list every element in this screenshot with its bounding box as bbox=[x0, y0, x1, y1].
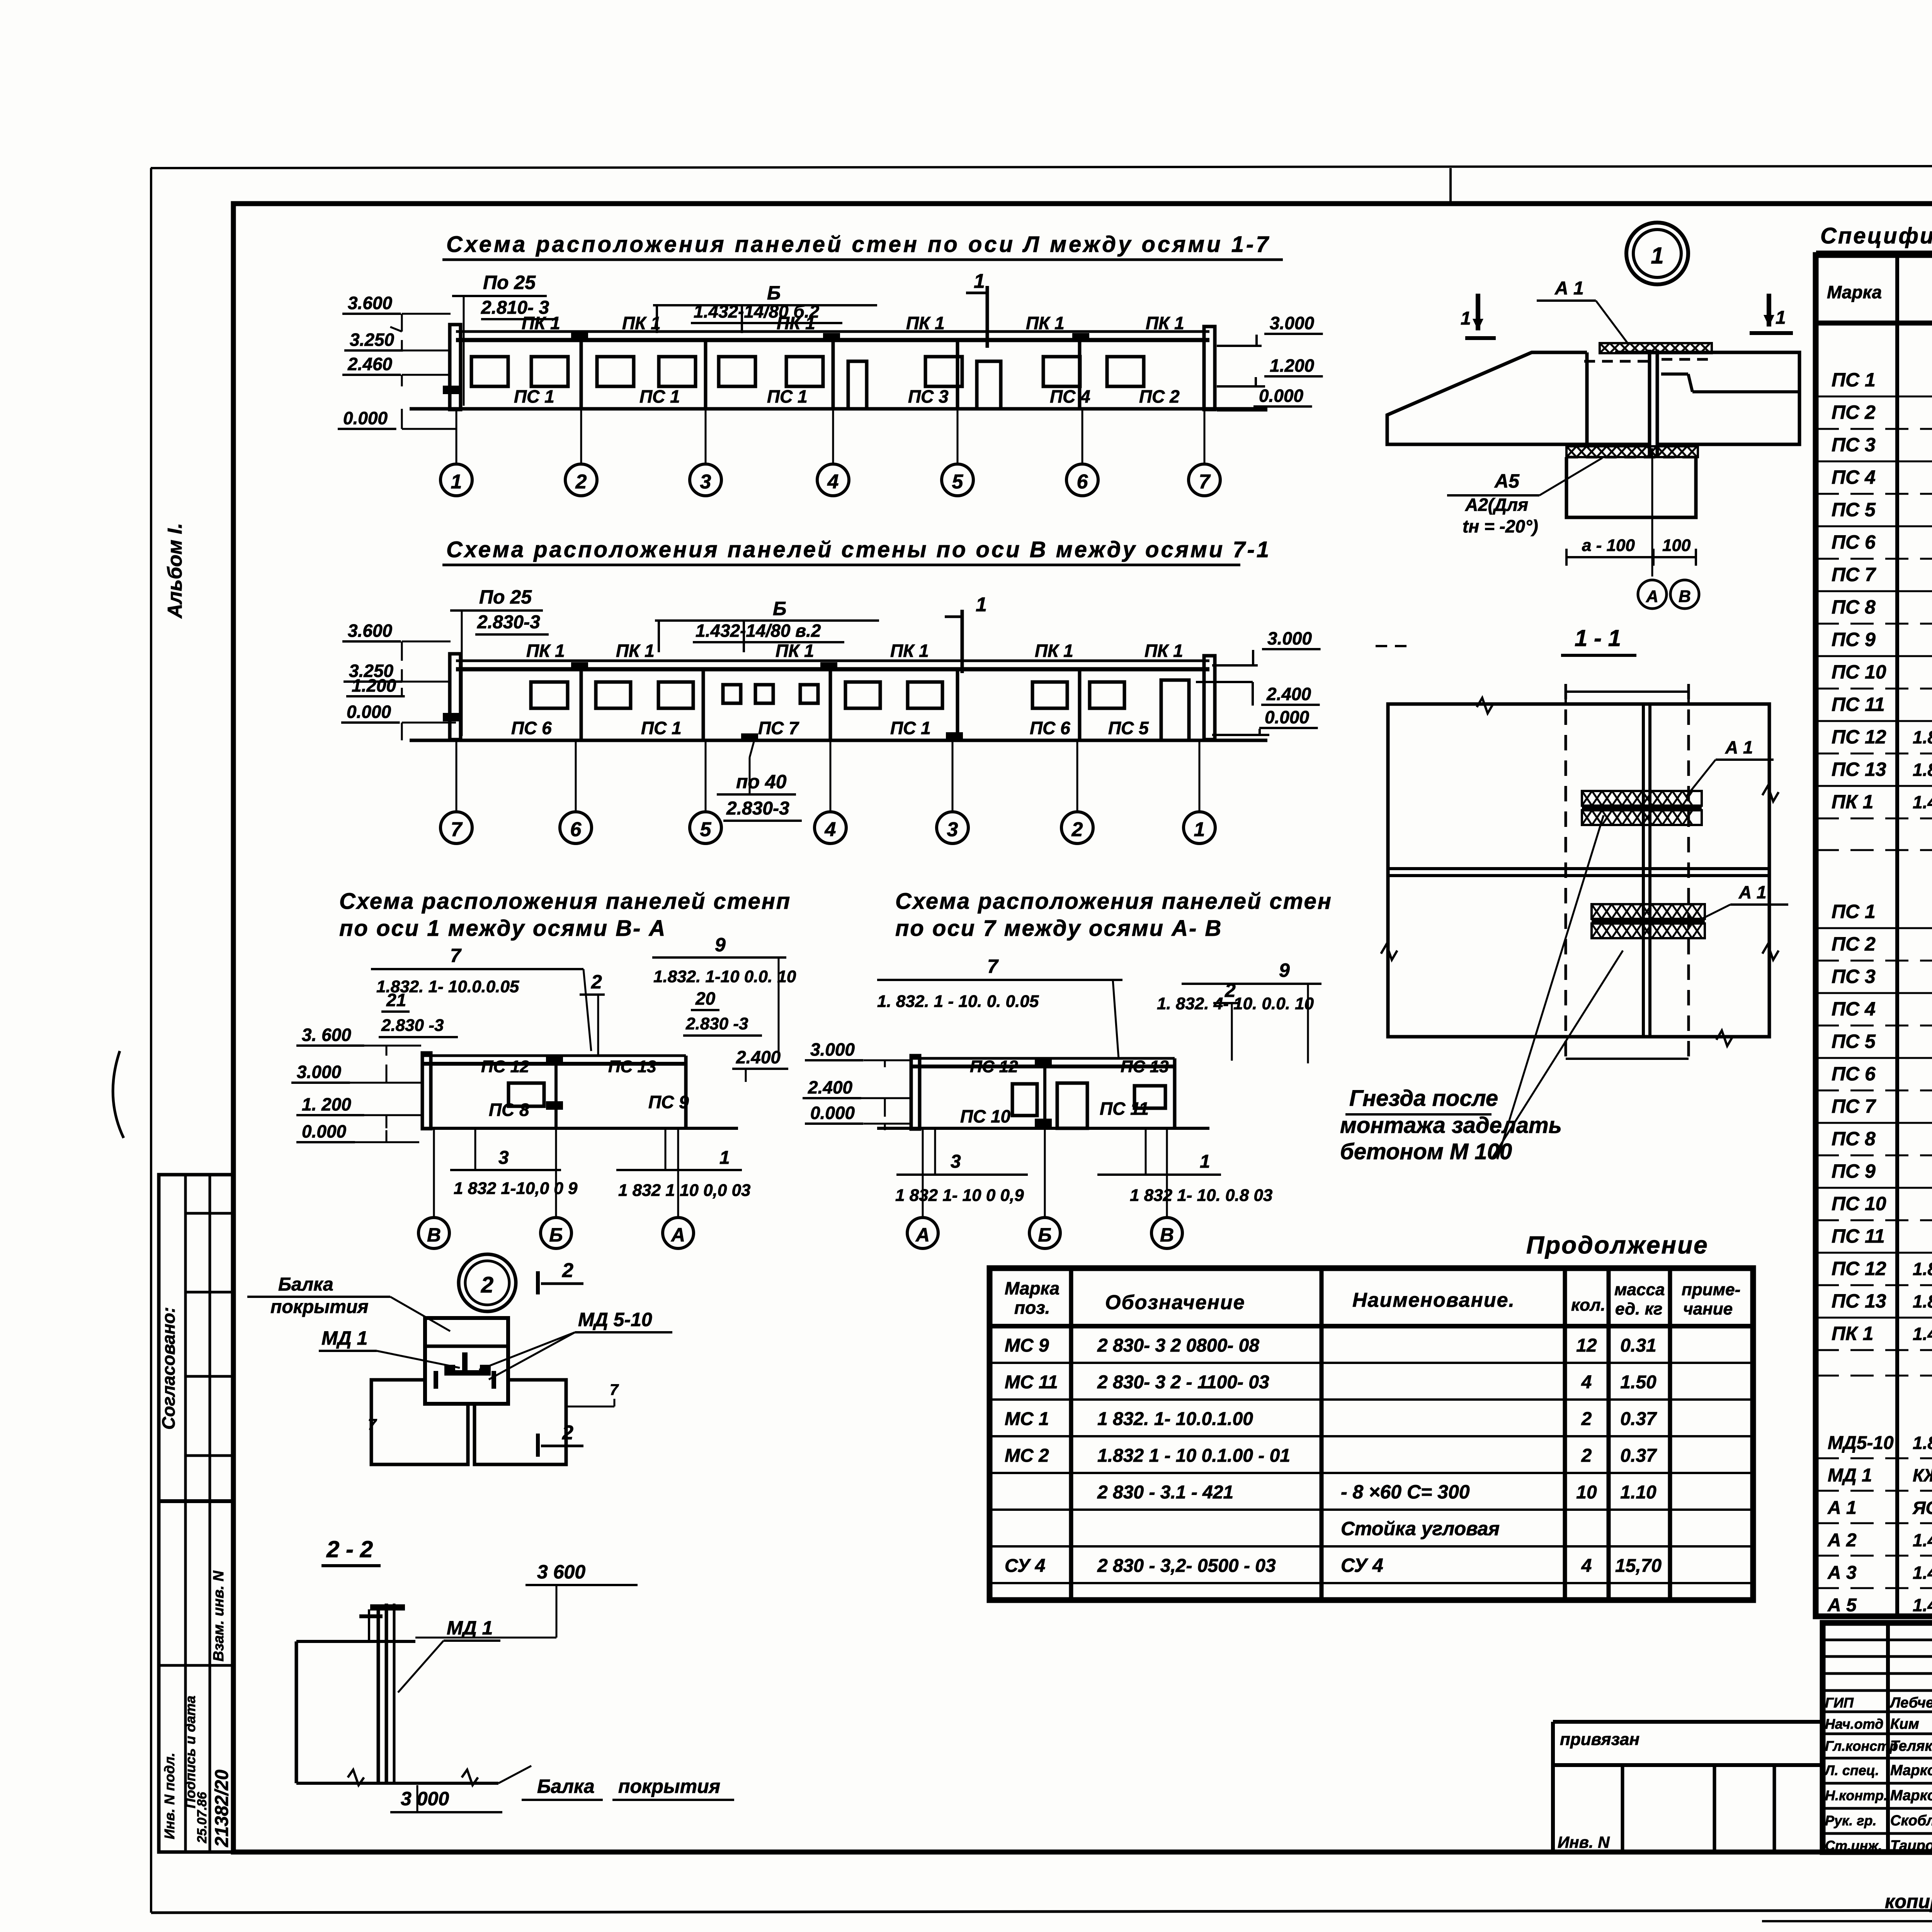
svg-text:1. 832. 1 - 10. 0. 0.05: 1. 832. 1 - 10. 0. 0.05 bbox=[877, 992, 1039, 1011]
svg-text:1: 1 bbox=[1651, 243, 1663, 269]
svg-text:1.832 1 - 10 0.1.00 - 01: 1.832 1 - 10 0.1.00 - 01 bbox=[1097, 1446, 1290, 1466]
svg-text:12: 12 bbox=[1576, 1335, 1597, 1356]
svg-text:А 1: А 1 bbox=[1738, 882, 1767, 902]
svg-text:ПС 7: ПС 7 bbox=[1832, 564, 1876, 585]
svg-text:1: 1 bbox=[1194, 818, 1205, 841]
svg-text:ПК 1: ПК 1 bbox=[526, 641, 565, 661]
svg-text:ПС 8: ПС 8 bbox=[1832, 596, 1876, 618]
svg-text:2.830-3: 2.830-3 bbox=[477, 612, 540, 633]
svg-text:10: 10 bbox=[1576, 1482, 1597, 1503]
svg-text:1.10: 1.10 bbox=[1620, 1482, 1656, 1503]
svg-text:ПС 2: ПС 2 bbox=[1139, 386, 1180, 406]
svg-text:1: 1 bbox=[1461, 308, 1471, 329]
svg-text:ПС 6: ПС 6 bbox=[511, 718, 552, 738]
svg-text:ПС 11: ПС 11 bbox=[1832, 694, 1885, 715]
svg-text:МД5-10: МД5-10 bbox=[1828, 1433, 1894, 1453]
svg-text:2.460: 2.460 bbox=[347, 354, 393, 374]
svg-text:3.600: 3.600 bbox=[348, 293, 393, 313]
svg-text:А5: А5 bbox=[1494, 470, 1520, 492]
svg-text:4: 4 bbox=[825, 818, 836, 841]
svg-text:ГИП: ГИП bbox=[1825, 1695, 1854, 1711]
svg-text:ПК 1: ПК 1 bbox=[1832, 791, 1873, 813]
svg-text:1.200: 1.200 bbox=[1270, 355, 1315, 376]
svg-text:покрытия: покрытия bbox=[270, 1297, 369, 1317]
svg-text:100: 100 bbox=[1662, 536, 1691, 555]
svg-text:ПС 1: ПС 1 bbox=[1832, 369, 1876, 391]
svg-text:Б: Б bbox=[1038, 1224, 1051, 1246]
svg-text:привязан: привязан bbox=[1560, 1730, 1639, 1749]
svg-text:ПС 10: ПС 10 bbox=[960, 1106, 1011, 1126]
svg-text:ПС 13: ПС 13 bbox=[1832, 1290, 1886, 1312]
svg-text:3 000: 3 000 bbox=[401, 1788, 449, 1810]
svg-text:ПК 1: ПК 1 bbox=[890, 641, 929, 661]
svg-text:1.50: 1.50 bbox=[1620, 1372, 1656, 1393]
svg-text:Ст.инж.: Ст.инж. bbox=[1825, 1838, 1882, 1854]
svg-text:Л. спец.: Л. спец. bbox=[1824, 1762, 1879, 1778]
svg-text:1 - 1: 1 - 1 bbox=[1575, 625, 1621, 651]
svg-text:МД 1: МД 1 bbox=[447, 1617, 493, 1639]
svg-text:ПК 1: ПК 1 bbox=[1035, 641, 1073, 661]
svg-text:0.000: 0.000 bbox=[343, 408, 388, 428]
svg-text:2.810- 3: 2.810- 3 bbox=[481, 298, 549, 318]
svg-text:Марка: Марка bbox=[1005, 1278, 1060, 1298]
svg-text:0.31: 0.31 bbox=[1620, 1335, 1656, 1356]
svg-text:25.07.86: 25.07.86 bbox=[195, 1792, 209, 1844]
svg-text:ПС 5: ПС 5 bbox=[1832, 499, 1876, 520]
svg-text:1: 1 bbox=[719, 1148, 730, 1168]
svg-text:А: А bbox=[915, 1224, 930, 1246]
svg-text:4: 4 bbox=[827, 471, 839, 493]
svg-text:приме-: приме- bbox=[1682, 1280, 1740, 1299]
svg-text:1.432-14/80 в.2: 1.432-14/80 в.2 bbox=[696, 621, 821, 641]
svg-text:3.000: 3.000 bbox=[297, 1062, 342, 1082]
svg-text:2: 2 bbox=[1581, 1446, 1592, 1466]
svg-text:В: В bbox=[1160, 1224, 1174, 1246]
svg-text:ПС 9: ПС 9 bbox=[1832, 629, 1876, 650]
svg-text:ПК 1: ПК 1 bbox=[616, 641, 655, 661]
svg-text:Спецификация к схеме распол: Спецификация к схеме расположения панеле… bbox=[1820, 223, 1932, 248]
svg-text:1: 1 bbox=[974, 270, 985, 293]
svg-text:ПК 1: ПК 1 bbox=[1145, 641, 1183, 661]
svg-text:ПС 13: ПС 13 bbox=[1121, 1057, 1169, 1076]
svg-text:7: 7 bbox=[987, 956, 999, 977]
svg-text:ПС 4: ПС 4 bbox=[1832, 466, 1876, 488]
svg-text:Взам. инв. N: Взам. инв. N bbox=[211, 1570, 227, 1662]
svg-text:4: 4 bbox=[1581, 1372, 1592, 1393]
svg-text:Таирова: Таирова bbox=[1890, 1838, 1932, 1854]
svg-text:1.832.1- 9 впп. 0.1,2: 1.832.1- 9 впп. 0.1,2 bbox=[1913, 727, 1932, 747]
svg-text:Б: Б bbox=[767, 282, 781, 304]
svg-text:Б: Б bbox=[549, 1224, 563, 1246]
svg-text:1: 1 bbox=[976, 594, 987, 616]
svg-text:ПК 1: ПК 1 bbox=[1832, 1323, 1873, 1344]
svg-text:2: 2 bbox=[575, 471, 587, 493]
svg-text:0.000: 0.000 bbox=[347, 702, 391, 722]
svg-text:2 830- 3 2 - 1100- 03: 2 830- 3 2 - 1100- 03 bbox=[1097, 1372, 1269, 1393]
svg-text:Гнезда после: Гнезда после bbox=[1349, 1086, 1498, 1111]
svg-text:2 830- 3 2 0800- 08: 2 830- 3 2 0800- 08 bbox=[1097, 1335, 1259, 1356]
svg-text:2.830 -3: 2.830 -3 bbox=[685, 1014, 748, 1033]
svg-text:a - 100: a - 100 bbox=[1582, 536, 1635, 555]
svg-text:По 25: По 25 bbox=[483, 272, 536, 293]
svg-text:21382/20: 21382/20 bbox=[212, 1769, 232, 1847]
svg-text:А: А bbox=[1646, 587, 1658, 606]
svg-text:3.600: 3.600 bbox=[348, 621, 393, 641]
svg-text:0.000: 0.000 bbox=[302, 1121, 347, 1141]
svg-text:А 1: А 1 bbox=[1827, 1498, 1857, 1518]
svg-text:Скобликов: Скобликов bbox=[1890, 1813, 1932, 1829]
svg-text:1.832 1- 9 впп 0,1, 2: 1.832 1- 9 впп 0,1, 2 bbox=[1913, 1291, 1932, 1311]
svg-text:В: В bbox=[1679, 587, 1691, 606]
svg-text:ПС 6: ПС 6 bbox=[1832, 531, 1876, 553]
svg-text:Марков: Марков bbox=[1890, 1762, 1932, 1779]
svg-text:ПС 11: ПС 11 bbox=[1100, 1099, 1149, 1119]
svg-text:А: А bbox=[670, 1224, 685, 1246]
svg-text:А 5: А 5 bbox=[1827, 1595, 1857, 1616]
svg-text:ПС 7: ПС 7 bbox=[758, 718, 799, 738]
svg-text:21: 21 bbox=[386, 990, 406, 1010]
svg-text:МД 1: МД 1 bbox=[321, 1327, 367, 1349]
svg-text:ПС 13: ПС 13 bbox=[1832, 759, 1886, 780]
svg-text:3: 3 bbox=[498, 1148, 509, 1168]
svg-text:1.432-14/80 впп. 2: 1.432-14/80 впп. 2 bbox=[1913, 1563, 1932, 1583]
svg-text:9: 9 bbox=[715, 934, 726, 956]
svg-text:по оси 7 между осями А- В: по оси 7 между осями А- В bbox=[895, 916, 1222, 941]
svg-text:ПС 1: ПС 1 bbox=[641, 718, 682, 738]
svg-text:3.000: 3.000 bbox=[1270, 313, 1315, 333]
svg-text:ПС 1: ПС 1 bbox=[1832, 901, 1876, 922]
svg-text:20: 20 bbox=[695, 988, 716, 1009]
svg-text:ПС 4: ПС 4 bbox=[1832, 998, 1876, 1020]
svg-text:В: В bbox=[427, 1224, 441, 1246]
svg-text:Ким: Ким bbox=[1890, 1716, 1919, 1732]
svg-text:3.000: 3.000 bbox=[810, 1039, 855, 1060]
svg-text:3: 3 bbox=[951, 1151, 961, 1172]
svg-text:0.000: 0.000 bbox=[810, 1103, 855, 1123]
svg-text:ПС 2: ПС 2 bbox=[1832, 933, 1876, 955]
svg-text:5: 5 bbox=[952, 471, 964, 493]
svg-text:Обозначение: Обозначение bbox=[1105, 1291, 1245, 1314]
svg-text:Инв. N: Инв. N bbox=[1558, 1833, 1610, 1851]
svg-text:Подпись и дата: Подпись и дата bbox=[182, 1696, 198, 1808]
svg-text:ПС 8: ПС 8 bbox=[489, 1100, 529, 1120]
svg-text:2.400: 2.400 bbox=[808, 1077, 853, 1097]
svg-text:2: 2 bbox=[562, 1422, 573, 1444]
svg-text:7: 7 bbox=[450, 945, 462, 966]
svg-text:2.830 -3: 2.830 -3 bbox=[381, 1016, 444, 1035]
svg-text:2: 2 bbox=[1071, 818, 1083, 841]
svg-text:1.432-14/80 впп. 2: 1.432-14/80 впп. 2 bbox=[1913, 1595, 1932, 1615]
svg-text:ПС 7: ПС 7 bbox=[1832, 1095, 1876, 1117]
svg-text:ПК 1: ПК 1 bbox=[622, 313, 661, 333]
svg-text:1: 1 bbox=[451, 471, 462, 493]
svg-text:ПС 1: ПС 1 bbox=[890, 718, 931, 738]
svg-text:2 830 - 3,2- 0500 - 03: 2 830 - 3,2- 0500 - 03 bbox=[1097, 1556, 1276, 1576]
svg-text:ПС 4: ПС 4 bbox=[1050, 386, 1090, 406]
svg-text:ПС 10: ПС 10 bbox=[1832, 661, 1886, 683]
svg-text:3.250: 3.250 bbox=[350, 330, 395, 350]
svg-text:3: 3 bbox=[700, 471, 711, 493]
svg-text:ПС 2: ПС 2 bbox=[1832, 401, 1876, 423]
svg-text:4: 4 bbox=[1581, 1556, 1592, 1576]
svg-text:Н.контр.: Н.контр. bbox=[1825, 1787, 1888, 1803]
svg-text:7: 7 bbox=[610, 1381, 619, 1398]
svg-text:1 832. 1- 10.0.1.00: 1 832. 1- 10.0.1.00 bbox=[1097, 1409, 1253, 1429]
svg-text:- 8 ×60 С= 300: - 8 ×60 С= 300 bbox=[1341, 1481, 1470, 1503]
svg-text:По 25: По 25 bbox=[479, 586, 532, 608]
svg-text:А 1: А 1 bbox=[1554, 278, 1584, 299]
svg-text:ПС 5: ПС 5 bbox=[1108, 718, 1149, 738]
svg-text:поз.: поз. bbox=[1014, 1298, 1050, 1318]
svg-text:ПС 11: ПС 11 bbox=[1832, 1225, 1885, 1247]
svg-text:15,70: 15,70 bbox=[1615, 1556, 1662, 1576]
svg-text:Балка: Балка bbox=[278, 1274, 333, 1295]
svg-text:МС 1: МС 1 bbox=[1005, 1409, 1049, 1429]
svg-text:Стойка угловая: Стойка угловая bbox=[1341, 1518, 1500, 1539]
svg-text:ПС 12: ПС 12 bbox=[970, 1057, 1018, 1076]
svg-text:Схема расположения панелей: Схема расположения панелей стены по оси … bbox=[446, 537, 1271, 562]
svg-text:2.400: 2.400 bbox=[1266, 684, 1311, 704]
svg-text:0.37: 0.37 bbox=[1620, 1446, 1657, 1466]
svg-text:1.800 - 4: 1.800 - 4 bbox=[1913, 1433, 1932, 1453]
svg-text:монтажа заделать: монтажа заделать bbox=[1340, 1113, 1562, 1138]
svg-text:Балка: Балка bbox=[537, 1776, 595, 1797]
svg-text:2 - 2: 2 - 2 bbox=[326, 1536, 373, 1562]
svg-text:МД 1: МД 1 bbox=[1828, 1465, 1872, 1486]
svg-text:6: 6 bbox=[570, 818, 582, 841]
svg-text:СУ 4: СУ 4 bbox=[1341, 1554, 1383, 1576]
svg-text:ПС 8: ПС 8 bbox=[1832, 1128, 1876, 1150]
svg-text:Марков: Марков bbox=[1890, 1787, 1932, 1804]
svg-text:КЖИ 5-00. 16.00: КЖИ 5-00. 16.00 bbox=[1913, 1465, 1932, 1485]
svg-text:Телякобский: Телякобский bbox=[1890, 1738, 1932, 1754]
svg-text:ПС 1: ПС 1 bbox=[514, 386, 554, 406]
svg-text:tн = -20°): tн = -20°) bbox=[1463, 516, 1538, 536]
svg-text:ПС 5: ПС 5 bbox=[1832, 1031, 1876, 1052]
svg-text:Наименование.: Наименование. bbox=[1352, 1289, 1515, 1311]
svg-text:кол.: кол. bbox=[1571, 1296, 1605, 1315]
svg-text:0.37: 0.37 bbox=[1620, 1409, 1657, 1429]
svg-text:1.432-14/80 впп. 0,2: 1.432-14/80 впп. 0,2 bbox=[1913, 792, 1932, 812]
svg-text:1 832 1-10,0 0 9: 1 832 1-10,0 0 9 bbox=[454, 1179, 578, 1198]
svg-text:ПС 1: ПС 1 bbox=[767, 386, 808, 406]
svg-text:МС 9: МС 9 bbox=[1005, 1335, 1049, 1356]
svg-text:по 40: по 40 bbox=[736, 771, 787, 793]
svg-text:ПС 9: ПС 9 bbox=[1832, 1160, 1876, 1182]
svg-text:2: 2 bbox=[562, 1259, 573, 1282]
svg-text:МД 5-10: МД 5-10 bbox=[578, 1309, 652, 1330]
svg-text:Рук. гр.: Рук. гр. bbox=[1825, 1813, 1877, 1828]
svg-text:МС 2: МС 2 bbox=[1005, 1446, 1049, 1466]
svg-text:бетоном М 100: бетоном М 100 bbox=[1340, 1139, 1512, 1164]
svg-text:А 2: А 2 bbox=[1827, 1530, 1857, 1551]
svg-text:масса: масса bbox=[1614, 1280, 1665, 1299]
svg-text:ПС 3: ПС 3 bbox=[908, 386, 949, 406]
svg-text:7: 7 bbox=[1199, 471, 1211, 493]
svg-text:чание: чание bbox=[1683, 1299, 1733, 1318]
svg-text:1.200: 1.200 bbox=[352, 675, 396, 696]
svg-text:А 3: А 3 bbox=[1827, 1563, 1857, 1583]
svg-text:2 830 - 3.1 - 421: 2 830 - 3.1 - 421 bbox=[1097, 1482, 1233, 1503]
svg-text:3 600: 3 600 bbox=[537, 1561, 585, 1583]
svg-text:5: 5 bbox=[700, 818, 712, 841]
svg-text:А 1: А 1 bbox=[1725, 737, 1753, 757]
svg-text:МС 11: МС 11 bbox=[1005, 1372, 1058, 1393]
svg-text:покрытия: покрытия bbox=[618, 1776, 720, 1797]
svg-text:ПС 10: ПС 10 bbox=[1832, 1193, 1886, 1214]
svg-text:Альбом I.: Альбом I. bbox=[164, 523, 186, 619]
svg-text:ПК 1: ПК 1 bbox=[1146, 313, 1184, 333]
svg-text:1.432-14/80 впп. 2: 1.432-14/80 впп. 2 bbox=[1913, 1530, 1932, 1550]
svg-text:Схема расположения панелей: Схема расположения панелей стен bbox=[895, 889, 1332, 914]
svg-text:ПС 9: ПС 9 bbox=[648, 1092, 689, 1112]
svg-text:2: 2 bbox=[481, 1272, 493, 1298]
svg-text:1.432-14/80 впп.0,2: 1.432-14/80 впп.0,2 bbox=[1913, 1324, 1932, 1344]
svg-text:1.832.1- 9 впп. 0,1,2: 1.832.1- 9 впп. 0,1,2 bbox=[1913, 760, 1932, 780]
svg-text:ПК 1: ПК 1 bbox=[776, 641, 814, 661]
svg-text:Марка: Марка bbox=[1827, 282, 1882, 302]
svg-text:2.830-3: 2.830-3 bbox=[726, 798, 789, 819]
svg-text:9: 9 bbox=[1279, 959, 1290, 981]
svg-text:ПС 3: ПС 3 bbox=[1832, 966, 1876, 987]
svg-text:1.832. 1-10 0.0. 10: 1.832. 1-10 0.0. 10 bbox=[653, 967, 796, 986]
svg-text:1: 1 bbox=[1776, 308, 1786, 328]
svg-text:ПС 12: ПС 12 bbox=[481, 1057, 529, 1076]
svg-text:ПК 1: ПК 1 bbox=[906, 313, 945, 333]
svg-text:ПС 12: ПС 12 bbox=[1832, 1258, 1886, 1279]
svg-text:1.832. 1- 9 впп. 0.1, 2: 1.832. 1- 9 впп. 0.1, 2 bbox=[1913, 1259, 1932, 1279]
svg-text:6: 6 bbox=[1077, 471, 1088, 493]
svg-text:Лебченкова: Лебченкова bbox=[1889, 1695, 1932, 1711]
svg-text:Гл.констр: Гл.констр bbox=[1825, 1738, 1898, 1754]
svg-text:3. 600: 3. 600 bbox=[302, 1025, 351, 1045]
svg-text:ПС 1: ПС 1 bbox=[639, 386, 680, 406]
svg-text:Согласовано:: Согласовано: bbox=[158, 1307, 179, 1430]
svg-text:ЯС - 11: ЯС - 11 bbox=[1912, 1498, 1932, 1518]
svg-text:7: 7 bbox=[451, 818, 463, 841]
svg-text:3: 3 bbox=[947, 818, 958, 841]
svg-text:Нач.отд: Нач.отд bbox=[1825, 1716, 1883, 1732]
svg-text:2: 2 bbox=[1225, 980, 1236, 1001]
svg-text:Схема расположения панелей: Схема расположения панелей стен по оси Л… bbox=[446, 232, 1271, 257]
svg-text:2.400: 2.400 bbox=[736, 1047, 781, 1067]
svg-text:по оси 1 между осями В- А: по оси 1 между осями В- А bbox=[339, 916, 666, 941]
svg-text:3.000: 3.000 bbox=[1267, 628, 1312, 648]
svg-text:2: 2 bbox=[1581, 1409, 1592, 1429]
svg-text:7: 7 bbox=[368, 1416, 377, 1433]
svg-text:Схема расположения панелей: Схема расположения панелей стенп bbox=[339, 889, 791, 914]
svg-text:ПК 1: ПК 1 bbox=[1026, 313, 1065, 333]
svg-text:0.000: 0.000 bbox=[1259, 386, 1304, 406]
svg-text:Б: Б bbox=[773, 598, 786, 619]
svg-text:ед. кг: ед. кг bbox=[1615, 1299, 1662, 1318]
svg-text:1 832 1 10 0,0 03: 1 832 1 10 0,0 03 bbox=[618, 1181, 751, 1200]
svg-text:1 832 1- 10. 0.8 03: 1 832 1- 10. 0.8 03 bbox=[1130, 1186, 1272, 1205]
svg-text:ПС 6: ПС 6 bbox=[1030, 718, 1070, 738]
svg-text:А2(Для: А2(Для bbox=[1465, 495, 1528, 515]
svg-text:копировал с.Бубнова: копировал с.Бубнова bbox=[1885, 1891, 1932, 1912]
svg-text:ПС 6: ПС 6 bbox=[1832, 1063, 1876, 1085]
svg-text:СУ 4: СУ 4 bbox=[1005, 1556, 1045, 1576]
svg-text:1 832 1- 10 0 0,9: 1 832 1- 10 0 0,9 bbox=[895, 1186, 1024, 1205]
svg-text:2: 2 bbox=[591, 971, 602, 993]
svg-text:ПС 3: ПС 3 bbox=[1832, 434, 1876, 456]
svg-text:Продолжение: Продолжение bbox=[1526, 1231, 1709, 1259]
svg-text:ПС 12: ПС 12 bbox=[1832, 726, 1886, 748]
svg-text:1: 1 bbox=[1200, 1151, 1210, 1172]
svg-text:0.000: 0.000 bbox=[1265, 707, 1310, 727]
svg-text:ПС 13: ПС 13 bbox=[608, 1057, 656, 1076]
svg-text:1. 200: 1. 200 bbox=[302, 1094, 351, 1114]
svg-text:Инв. N подл.: Инв. N подл. bbox=[162, 1753, 177, 1839]
